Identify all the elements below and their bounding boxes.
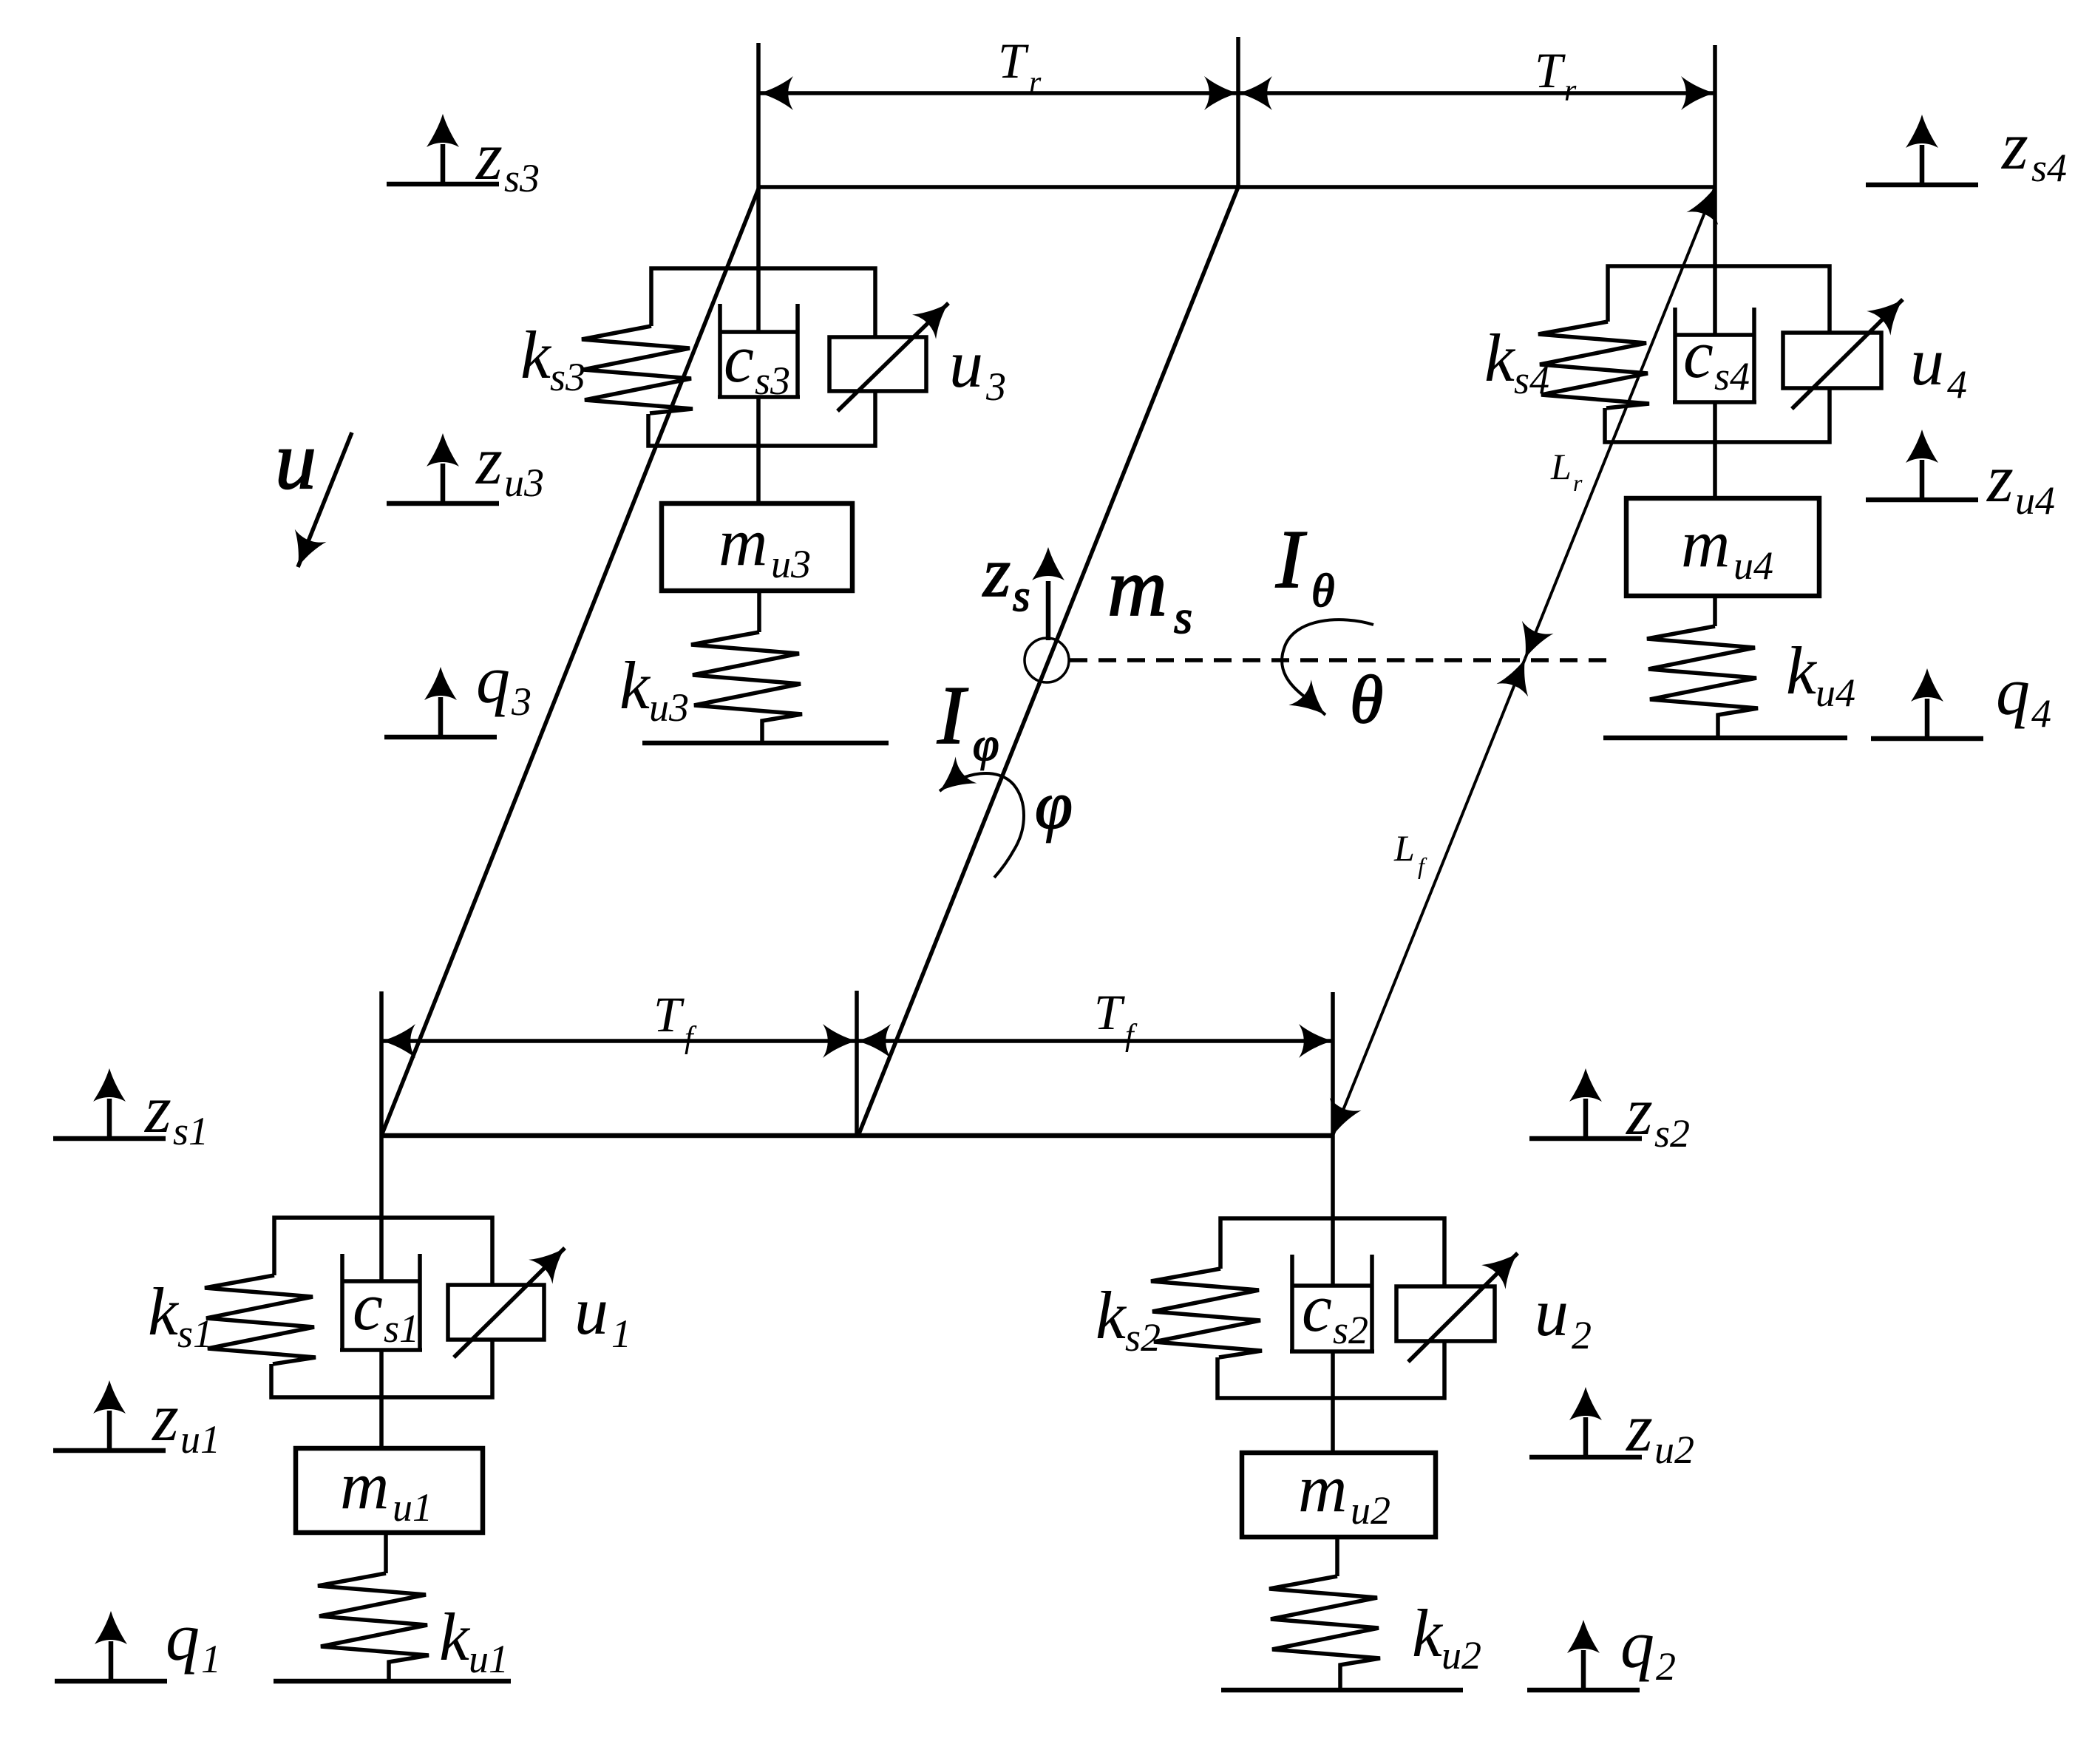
spring ks1 bbox=[205, 1275, 316, 1364]
actuator u3 bbox=[829, 337, 926, 391]
svg-text:u: u bbox=[949, 326, 983, 401]
svg-text:3: 3 bbox=[511, 679, 532, 724]
svg-text:z: z bbox=[1986, 441, 2014, 516]
tick rear middle bbox=[1236, 37, 1240, 187]
svg-text:u4: u4 bbox=[1816, 671, 1855, 715]
svg-text:q: q bbox=[1996, 654, 2030, 729]
svg-text:s3: s3 bbox=[550, 355, 585, 399]
spring ks4 bbox=[1538, 322, 1649, 408]
svg-text:c: c bbox=[1302, 1270, 1332, 1346]
svg-text:u4: u4 bbox=[2015, 478, 2055, 523]
svg-text:c: c bbox=[724, 321, 754, 396]
svg-text:q: q bbox=[1620, 1607, 1654, 1682]
svg-text:k: k bbox=[1786, 633, 1818, 708]
svg-text:φ: φ bbox=[1035, 767, 1073, 843]
svg-text:z: z bbox=[475, 423, 503, 498]
wire: strut rear-left corner 3 bbox=[756, 43, 761, 332]
svg-text:s: s bbox=[1174, 591, 1192, 643]
reference marker zs4 bbox=[1866, 115, 1978, 185]
svg-text:s1: s1 bbox=[177, 1312, 213, 1356]
wire: strut front-left corner 1 bbox=[379, 991, 384, 1281]
reference marker zu2 bbox=[1529, 1387, 1642, 1457]
svg-text:m: m bbox=[719, 504, 767, 580]
wire: strut front-right corner 2 bbox=[1331, 992, 1335, 1286]
spring ks3 bbox=[582, 326, 693, 413]
svg-text:u4: u4 bbox=[1733, 543, 1773, 588]
svg-text:m: m bbox=[1681, 506, 1730, 581]
arrow zs bbox=[1046, 581, 1051, 640]
svg-text:z: z bbox=[982, 533, 1011, 611]
wire: below mu4 bbox=[1713, 596, 1717, 626]
svg-text:m: m bbox=[1107, 542, 1167, 634]
svg-text:1: 1 bbox=[611, 1312, 631, 1356]
reference marker q4 bbox=[1871, 668, 1983, 739]
svg-text:s4: s4 bbox=[2031, 146, 2067, 190]
reference marker zu3 bbox=[387, 433, 499, 503]
svg-text:T: T bbox=[653, 986, 685, 1042]
svg-text:u2: u2 bbox=[1441, 1633, 1481, 1678]
svg-text:r: r bbox=[1029, 66, 1042, 100]
svg-text:z: z bbox=[475, 118, 503, 194]
svg-text:c: c bbox=[1683, 316, 1714, 392]
svg-text:u1: u1 bbox=[180, 1417, 220, 1462]
svg-text:u: u bbox=[574, 1273, 608, 1349]
actuator u1 bbox=[448, 1285, 544, 1340]
svg-text:k: k bbox=[1412, 1595, 1444, 1671]
mass mu4 bbox=[1626, 498, 1819, 596]
svg-text:k: k bbox=[619, 648, 651, 723]
svg-text:T: T bbox=[1535, 42, 1566, 98]
bracket corner 4 bbox=[1608, 266, 1830, 333]
svg-text:s4: s4 bbox=[1514, 358, 1549, 402]
actuator u2 bbox=[1396, 1286, 1495, 1341]
wire: body middle edge bbox=[858, 187, 1238, 1136]
mass mu1 bbox=[296, 1448, 483, 1533]
svg-text:r: r bbox=[1573, 469, 1583, 496]
svg-text:s2: s2 bbox=[1125, 1315, 1161, 1360]
svg-text:s3: s3 bbox=[755, 359, 790, 403]
svg-text:z: z bbox=[143, 1071, 171, 1147]
svg-text:q: q bbox=[476, 642, 510, 717]
svg-text:z: z bbox=[2000, 108, 2028, 183]
wire: below mu1 bbox=[384, 1533, 388, 1573]
svg-text:s3: s3 bbox=[504, 156, 540, 200]
spring ku4 bbox=[1647, 626, 1758, 738]
spring ku2 bbox=[1269, 1576, 1380, 1690]
svg-text:s4: s4 bbox=[1714, 354, 1750, 398]
spring ku3 bbox=[691, 632, 802, 742]
svg-text:k: k bbox=[1484, 320, 1516, 396]
svg-text:θ: θ bbox=[1311, 564, 1334, 617]
damper cs2 bbox=[1290, 1255, 1294, 1351]
svg-text:u2: u2 bbox=[1654, 1428, 1694, 1472]
mass mu2 bbox=[1242, 1453, 1436, 1537]
spring ks2 bbox=[1151, 1269, 1262, 1357]
svg-text:m: m bbox=[1298, 1451, 1347, 1526]
svg-text:u3: u3 bbox=[771, 542, 811, 586]
wire: body left edge bbox=[381, 187, 759, 1136]
svg-text:q: q bbox=[166, 1599, 200, 1675]
wire: strut rear-right corner 4 bbox=[1713, 45, 1717, 335]
svg-text:T: T bbox=[1094, 984, 1125, 1040]
pitch axis dashed line bbox=[1070, 658, 1611, 662]
bracket corner 3 bbox=[651, 268, 875, 337]
arrow phi bbox=[940, 773, 1024, 878]
svg-text:u3: u3 bbox=[504, 461, 544, 505]
reference marker q2 bbox=[1527, 1620, 1640, 1690]
svg-text:I: I bbox=[1275, 514, 1307, 605]
mass mu3 bbox=[662, 503, 852, 591]
dimension Tr left bbox=[759, 91, 1238, 95]
reference marker zs1 bbox=[53, 1068, 166, 1139]
svg-text:c: c bbox=[353, 1269, 383, 1344]
svg-text:u1: u1 bbox=[393, 1485, 432, 1530]
dimension Tf right bbox=[857, 1039, 1333, 1043]
svg-text:z: z bbox=[1625, 1073, 1653, 1149]
dimension Tf left bbox=[381, 1039, 857, 1043]
arrow u vehicle speed bbox=[298, 432, 352, 567]
reference marker zs2 bbox=[1529, 1068, 1642, 1139]
dimension Lr (body right edge rear half) bbox=[1525, 187, 1715, 659]
reference marker zu1 bbox=[53, 1380, 166, 1451]
svg-text:r: r bbox=[1564, 74, 1577, 108]
reference marker q1 bbox=[55, 1611, 167, 1681]
svg-text:s1: s1 bbox=[173, 1109, 208, 1153]
svg-text:k: k bbox=[439, 1599, 471, 1675]
dimension Lf (body right edge front half) bbox=[1333, 659, 1525, 1136]
node CG circle bbox=[1025, 638, 1069, 682]
svg-text:k: k bbox=[520, 317, 552, 393]
bracket corner 2 bbox=[1220, 1218, 1444, 1286]
svg-text:2: 2 bbox=[1572, 1313, 1592, 1357]
ground road contact 1 bbox=[274, 1679, 511, 1684]
arrow theta bbox=[1282, 620, 1373, 715]
wire: sprung-mass body bottom edge (front) bbox=[381, 1133, 1333, 1139]
svg-text:m: m bbox=[340, 1448, 389, 1523]
svg-text:k: k bbox=[148, 1274, 180, 1349]
svg-text:1: 1 bbox=[201, 1637, 221, 1681]
dimension Tr right bbox=[1238, 91, 1715, 95]
tick front middle bbox=[855, 991, 859, 1138]
reference marker zu4 bbox=[1866, 430, 1978, 500]
ground road contact 2 bbox=[1221, 1688, 1463, 1693]
svg-text:u: u bbox=[1910, 324, 1944, 399]
reference marker zs3 bbox=[387, 114, 499, 184]
svg-text:k: k bbox=[1096, 1278, 1127, 1353]
svg-text:s1: s1 bbox=[384, 1306, 419, 1351]
svg-text:φ: φ bbox=[973, 718, 999, 770]
damper cs4 bbox=[1673, 308, 1677, 402]
wire: below mu2 bbox=[1335, 1537, 1339, 1576]
svg-text:z: z bbox=[151, 1380, 179, 1455]
svg-text:L: L bbox=[1393, 827, 1415, 869]
wire: sprung-mass body top edge (rear) bbox=[759, 185, 1715, 189]
ground road contact 3 bbox=[642, 741, 889, 746]
svg-text:4: 4 bbox=[2031, 691, 2051, 736]
svg-text:4: 4 bbox=[1947, 362, 1967, 407]
damper cs3 bbox=[718, 304, 722, 397]
svg-text:s2: s2 bbox=[1333, 1308, 1368, 1352]
svg-text:u: u bbox=[1535, 1275, 1569, 1350]
reference marker q3 bbox=[384, 667, 497, 737]
svg-text:u2: u2 bbox=[1351, 1488, 1390, 1533]
wire: below mu3 bbox=[757, 591, 761, 632]
svg-text:L: L bbox=[1550, 446, 1572, 487]
actuator u4 bbox=[1783, 333, 1881, 388]
svg-text:θ: θ bbox=[1350, 662, 1383, 737]
svg-text:s: s bbox=[1013, 571, 1030, 620]
svg-text:3: 3 bbox=[985, 364, 1006, 409]
svg-text:z: z bbox=[1625, 1390, 1653, 1465]
svg-text:u1: u1 bbox=[469, 1637, 509, 1681]
svg-text:2: 2 bbox=[1656, 1644, 1676, 1689]
ground road contact 4 bbox=[1603, 736, 1847, 741]
svg-text:s2: s2 bbox=[1654, 1111, 1690, 1156]
damper cs1 bbox=[340, 1254, 344, 1350]
svg-text:T: T bbox=[998, 33, 1029, 89]
svg-text:u: u bbox=[275, 415, 316, 506]
svg-text:I: I bbox=[937, 670, 968, 761]
spring ku1 bbox=[318, 1573, 429, 1681]
svg-text:u3: u3 bbox=[649, 685, 689, 730]
bracket corner 1 bbox=[274, 1218, 492, 1285]
